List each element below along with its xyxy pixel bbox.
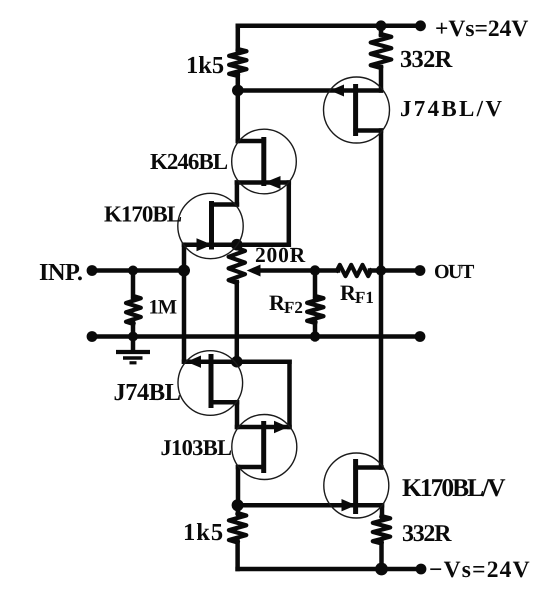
wire K246 source-gate line bbox=[237, 180, 289, 185]
wire input node down to J74BL gate bbox=[182, 271, 187, 362]
wire J74BL drain down to J103 bbox=[235, 402, 240, 427]
ground bar 3 bbox=[130, 361, 137, 364]
junction dot 1M bottom bbox=[128, 332, 138, 342]
resistor 1M lower lead bbox=[131, 323, 136, 337]
junction dot top rail / 332R bbox=[376, 20, 387, 31]
svg-text:OUT: OUT bbox=[434, 261, 475, 283]
wire top rail +Vs bbox=[238, 24, 421, 29]
wire right rail J74BLV to K170BLV bbox=[379, 131, 384, 468]
resistor 332R bottom zigzag bbox=[373, 516, 390, 544]
svg-text:K170BL/V: K170BL/V bbox=[402, 473, 506, 502]
junction dot 1M top bbox=[128, 266, 138, 276]
junction dot J74BL source / pot bottom bbox=[231, 356, 243, 368]
wire K170 gate down to input node bbox=[182, 245, 187, 271]
resistor RF2 zigzag bbox=[307, 296, 323, 323]
svg-text:−Vs=24V: −Vs=24V bbox=[429, 557, 531, 583]
arrow pot 200R wiper (tip left) bbox=[247, 265, 261, 277]
ground bar 2 bbox=[123, 356, 143, 360]
wire pot wiper lead bbox=[258, 268, 338, 273]
wire K170BLV source elbow down to 332R bbox=[380, 505, 385, 517]
junction dot OUT rail bbox=[376, 265, 386, 275]
transistor K170BLV channel bar bbox=[353, 459, 358, 514]
ground bar 1 bbox=[116, 350, 150, 354]
terminal dot OUT bbox=[415, 265, 426, 276]
svg-text:1k5: 1k5 bbox=[183, 519, 224, 546]
wire RF1 to OUT terminal bbox=[370, 268, 420, 273]
wire J74BL drain stub bbox=[211, 400, 237, 405]
wire K246 gate down bbox=[287, 183, 292, 245]
circle J74BL bbox=[178, 351, 243, 416]
resistor 1M upper lead bbox=[131, 271, 136, 298]
svg-text:1M: 1M bbox=[149, 297, 177, 319]
terminal dot +Vs bbox=[415, 20, 426, 31]
circle K170BL bbox=[178, 193, 243, 258]
arrow J103BL gate (p-ch, tip right) bbox=[274, 421, 289, 433]
potentiometer 200R zigzag bbox=[229, 248, 245, 283]
junction dot K170 source / pot top bbox=[231, 239, 243, 251]
resistor 1k5 bottom zigzag bbox=[229, 513, 246, 543]
wire 1k5 bottom to K246 drain elbow bbox=[236, 75, 241, 141]
wire J103 drain down to 1k5 bottom bbox=[236, 467, 241, 514]
junction dot 1k5 / J74BLV gate bbox=[232, 85, 244, 97]
wire 1k5 bottom to rail bbox=[235, 542, 240, 570]
resistor R 1M zigzag bbox=[126, 296, 141, 324]
wire J103 drain stub bbox=[238, 465, 264, 470]
ground symbol stem bbox=[131, 337, 136, 351]
wire INP line bbox=[92, 268, 184, 273]
svg-text:K170BL: K170BL bbox=[104, 202, 182, 227]
terminal dot gnd right bbox=[415, 331, 426, 342]
svg-text:F1: F1 bbox=[355, 288, 374, 307]
terminal dot -Vs bbox=[416, 564, 427, 575]
wire K170BLV gate line bbox=[238, 503, 382, 508]
junction dot RF2 bottom bbox=[310, 331, 320, 341]
resistor R 1k5 top zigzag bbox=[229, 49, 246, 76]
svg-text:+Vs=24V: +Vs=24V bbox=[435, 16, 528, 42]
svg-text:J74BL: J74BL bbox=[114, 379, 181, 406]
wire K170BLV drain stub bbox=[356, 465, 382, 470]
arrow K170BLV gate (n-ch, tip right at bar) bbox=[342, 499, 357, 511]
wire J74BLV gate line bbox=[238, 88, 381, 93]
wire K170 drain stub bbox=[212, 202, 237, 207]
arrow K246BL gate (n-ch, tip left at bar) bbox=[265, 176, 281, 189]
wire right rail top to 332R bbox=[379, 26, 384, 35]
circle J103BL bbox=[232, 415, 297, 480]
wire J103 top line bbox=[237, 425, 290, 430]
terminal dot INP bbox=[87, 265, 98, 276]
svg-text:J103BL: J103BL bbox=[161, 435, 233, 460]
arrow K170BL gate (n-ch, tip right at bar) bbox=[197, 238, 213, 251]
wire ground rail bbox=[92, 334, 420, 339]
transistor J74BL channel bar bbox=[209, 354, 214, 408]
transistor J103BL channel bar bbox=[261, 421, 266, 473]
svg-text:K246BL: K246BL bbox=[150, 149, 228, 174]
circle K170BLV bbox=[324, 453, 389, 518]
wire J74BL gate-source line bbox=[184, 359, 290, 364]
arrow J74BLV gate (p-ch, tip left) bbox=[330, 85, 344, 97]
terminal dot gnd left bbox=[87, 331, 98, 342]
resistor RF2 upper lead bbox=[313, 271, 318, 298]
wire left column above 1k5 bbox=[236, 26, 241, 50]
wire K246 drain stub bbox=[238, 139, 264, 144]
wire 332R top to J74BLV source elbow bbox=[379, 67, 384, 91]
resistor 332R top zigzag bbox=[371, 34, 392, 68]
transistor K170BL channel bar bbox=[209, 201, 214, 250]
resistor RF1 zigzag bbox=[337, 265, 371, 276]
svg-text:200R: 200R bbox=[255, 243, 306, 267]
wire 332R bottom to rail bbox=[379, 543, 384, 570]
wire node to pot top bbox=[237, 242, 289, 247]
junction dot node A RF1/RF2/wiper bbox=[310, 265, 320, 275]
junction dot bottom rail / 332R bbox=[375, 563, 388, 576]
circle J74BLV bbox=[324, 77, 390, 143]
svg-text:INP.: INP. bbox=[39, 259, 83, 286]
arrow J74BL gate (p-ch, tip left) bbox=[187, 356, 202, 368]
wire K170 gate-source line bbox=[184, 242, 237, 247]
circle K246BL bbox=[232, 129, 297, 194]
transistor K246BL channel bar bbox=[261, 137, 266, 186]
svg-text:F2: F2 bbox=[284, 298, 303, 317]
wire J103 gate up to J74BL source node bbox=[287, 362, 292, 427]
svg-text:332R: 332R bbox=[402, 521, 452, 547]
junction dot input node bbox=[178, 265, 190, 277]
wire pot bottom down to J74BL source node bbox=[235, 282, 240, 362]
resistor RF2 lower lead bbox=[313, 322, 318, 337]
svg-text:J74BL/V: J74BL/V bbox=[400, 96, 504, 121]
junction dot 1k5 bottom / K170BLV gate bbox=[232, 499, 244, 511]
svg-text:1k5: 1k5 bbox=[186, 52, 224, 79]
transistor J74BLV channel bar bbox=[353, 84, 358, 136]
wire J74BLV drain line bbox=[356, 128, 381, 133]
wire bottom rail -Vs bbox=[238, 567, 421, 572]
svg-text:332R: 332R bbox=[400, 46, 453, 73]
wire K246 source down to K170 drain bbox=[235, 183, 240, 205]
